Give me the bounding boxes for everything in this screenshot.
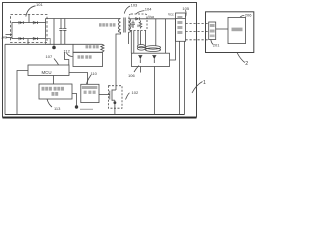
svg-text:201: 201 <box>213 43 220 48</box>
svg-text:Vsa: Vsa <box>148 15 154 19</box>
svg-text:101: 101 <box>36 2 43 7</box>
svg-text:206: 206 <box>245 12 252 17</box>
svg-text:AC: AC <box>2 34 8 39</box>
svg-text:113: 113 <box>54 106 61 111</box>
svg-text:110: 110 <box>91 71 98 76</box>
svg-text:Vcc: Vcc <box>168 13 174 17</box>
svg-text:103: 103 <box>131 2 138 7</box>
svg-text:104: 104 <box>145 6 152 11</box>
svg-text:112: 112 <box>64 49 71 54</box>
svg-text:102: 102 <box>132 90 139 95</box>
svg-text:2: 2 <box>245 61 248 67</box>
svg-text:106: 106 <box>128 73 135 78</box>
svg-text:107: 107 <box>46 54 53 59</box>
svg-text:MCU: MCU <box>42 70 52 75</box>
svg-text:105: 105 <box>182 6 189 11</box>
svg-text:1: 1 <box>203 80 206 86</box>
